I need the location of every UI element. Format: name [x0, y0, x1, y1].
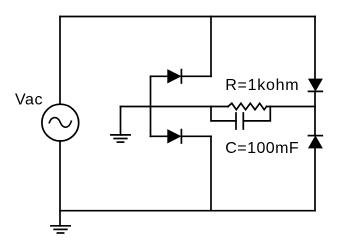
- svg-text:C=100mF: C=100mF: [225, 140, 299, 157]
- svg-text:R=1kohm: R=1kohm: [225, 77, 299, 94]
- svg-text:Vac: Vac: [15, 91, 43, 108]
